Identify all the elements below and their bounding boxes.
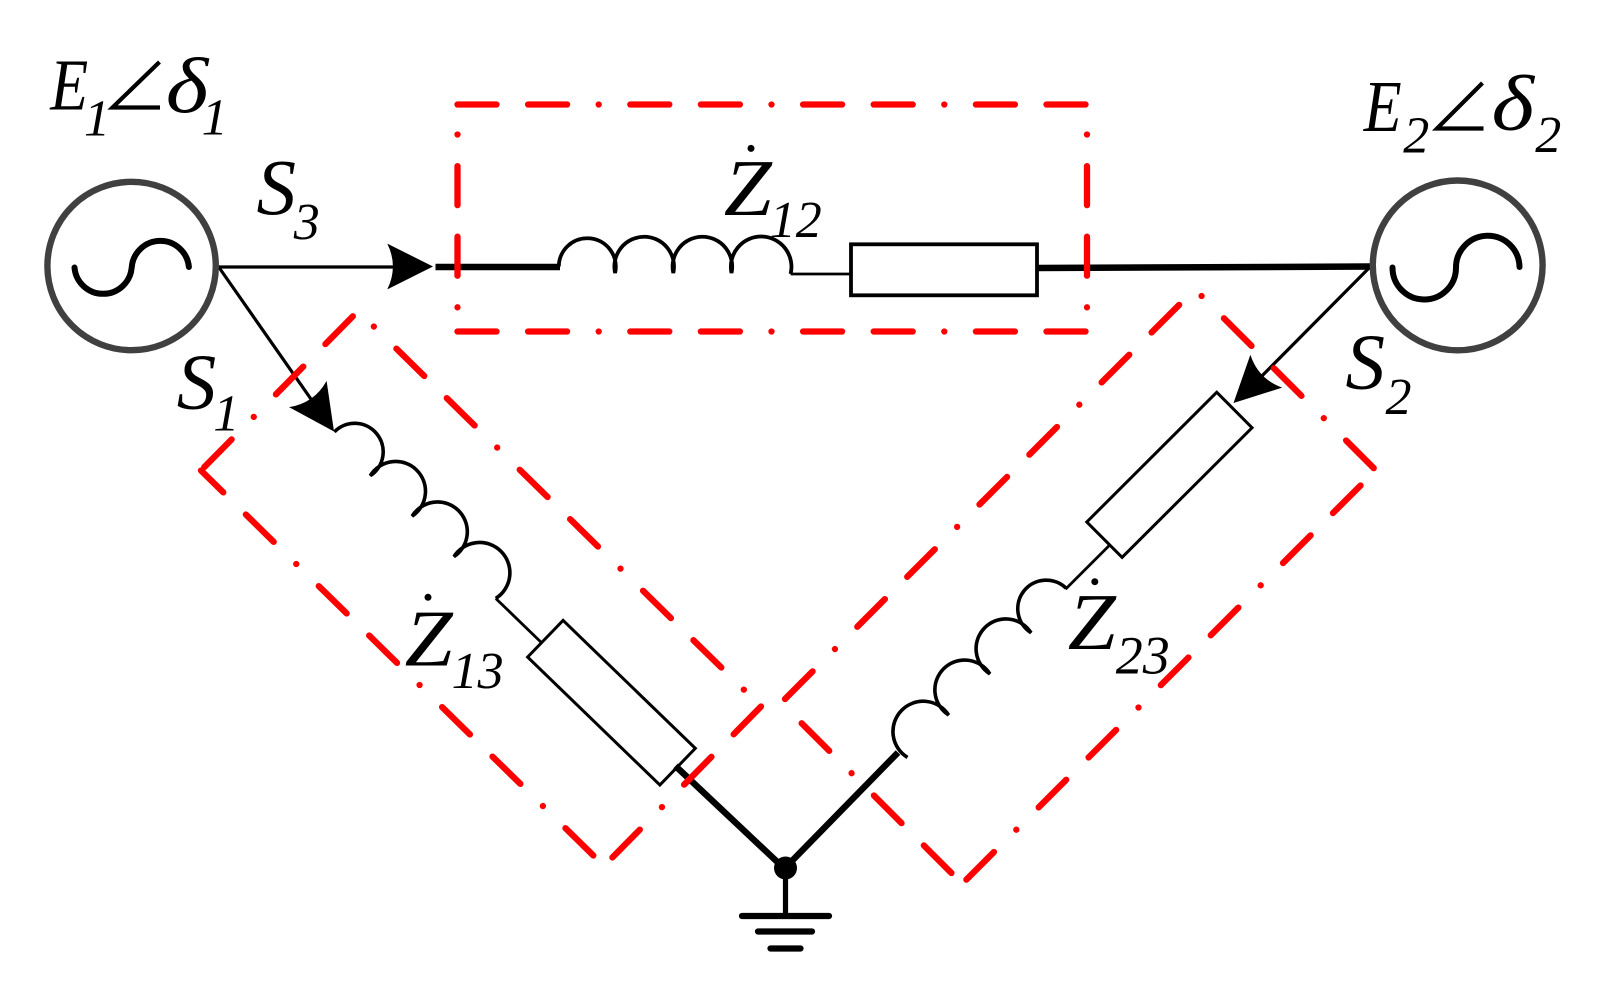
branch Z13 group: [315, 410, 807, 888]
arrowhead S1: [289, 381, 353, 445]
wire resistor R12 to source E2: [1037, 267, 1371, 269]
svg-text:Z: Z: [1068, 579, 1117, 667]
box Z13 south-west edge: [201, 471, 604, 867]
svg-text:E: E: [49, 45, 88, 126]
wire resistor R13 to ground node: [675, 765, 785, 871]
svg-text:2: 2: [1535, 107, 1561, 164]
wire S3 from source E1 to arrow: [218, 265, 420, 268]
wire resistor R23 to inductor L23: [1066, 545, 1110, 589]
resistor R23: [1087, 392, 1252, 557]
svg-text:2: 2: [1386, 369, 1412, 426]
box Z23 north-west edge: [781, 289, 1195, 703]
svg-text:S: S: [1346, 320, 1386, 407]
svg-text:E: E: [1363, 67, 1402, 148]
svg-text:12: 12: [770, 192, 822, 249]
box Z12 left edge: [454, 105, 460, 332]
svg-text:1: 1: [84, 91, 110, 148]
box Z12 bottom edge: [458, 328, 1088, 334]
svg-text:23: 23: [1116, 626, 1170, 686]
inductor L13: [329, 410, 522, 599]
resistor R13: [528, 620, 696, 785]
arrowhead S2: [1218, 355, 1283, 420]
label Z23: [1091, 578, 1098, 585]
svg-text:1: 1: [213, 386, 239, 443]
wire inductor L23 to ground node: [787, 753, 898, 867]
voltage source E2: [1373, 181, 1543, 351]
inductor L23: [880, 567, 1071, 758]
ground node junction: [774, 857, 797, 880]
svg-text:Z: Z: [724, 145, 773, 233]
svg-text:Z: Z: [405, 595, 454, 683]
wire node1 to inductor L12: [436, 264, 561, 271]
wire S1 from source E1 to arrow: [218, 266, 327, 422]
dash-dot box around Z12: [458, 105, 1088, 332]
svg-text:S: S: [177, 339, 217, 426]
box Z12 right edge: [1084, 105, 1090, 332]
box Z23 south-east edge: [962, 470, 1376, 884]
box Z23 south-west edge: [781, 703, 962, 884]
box Z13 north-west edge: [201, 311, 358, 471]
box Z12 top edge: [458, 101, 1088, 107]
label Z12: [748, 145, 755, 152]
box Z13 south-east edge: [604, 707, 761, 867]
wire inductor L13 to resistor R13: [496, 598, 542, 643]
svg-text:S: S: [257, 145, 297, 232]
svg-text:1: 1: [202, 90, 228, 147]
dash-dot box around Z13: [201, 311, 761, 866]
resistor R12: [851, 244, 1037, 295]
svg-text:13: 13: [452, 643, 504, 700]
svg-text:δ: δ: [1492, 61, 1536, 147]
label Z13: [425, 594, 432, 601]
dash-dot box around Z23: [781, 289, 1376, 884]
inductor L12: [559, 237, 792, 274]
svg-text:2: 2: [1403, 108, 1429, 165]
box Z13 north-east edge: [358, 311, 761, 707]
wire S2 from source E2 to arrow: [1245, 267, 1371, 394]
wire junction to ground: [783, 868, 788, 914]
ground: [742, 913, 829, 919]
svg-text:3: 3: [293, 194, 320, 251]
wire inductor L12 to resistor R12: [791, 273, 852, 276]
branch Z23 group: [879, 392, 1252, 765]
box Z23 north-east edge: [1195, 289, 1376, 470]
arrowhead S3: [387, 244, 433, 290]
voltage source E1: [47, 182, 215, 350]
